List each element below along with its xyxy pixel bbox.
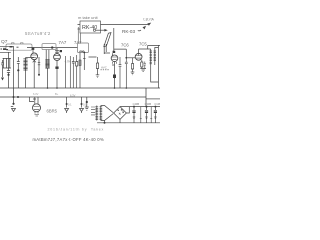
AGC wire xyxy=(38,57,40,75)
svg-text:C30B: C30B xyxy=(145,102,152,106)
dial cord arrowhead xyxy=(147,23,151,26)
ground cap far left xyxy=(1,60,4,77)
dial terminal circle xyxy=(93,29,95,31)
coil pack top terminals xyxy=(12,43,24,44)
T4 top wire xyxy=(138,49,140,53)
IFT2 to detector wire xyxy=(89,53,113,57)
tube T5 magic eye 6BR5 xyxy=(33,104,41,112)
tube T1 converter xyxy=(31,53,38,60)
RK-40 unit box xyxy=(80,21,101,33)
T4 grid wire xyxy=(126,57,135,59)
coupling capacitor C8 xyxy=(125,55,128,88)
ground G3 xyxy=(96,69,100,78)
wire RK-40 terminal drops xyxy=(78,27,80,43)
rail junction dots xyxy=(47,87,49,89)
variable cap mark xyxy=(33,59,36,63)
transformer bottom to rail xyxy=(104,121,106,123)
resistor R2 xyxy=(64,56,66,88)
antenna coil windings xyxy=(3,58,11,68)
power transformer xyxy=(97,106,101,121)
junction dot rail2 xyxy=(17,96,19,98)
filter capacitor E2 xyxy=(146,106,148,108)
svg-text:m take unit: m take unit xyxy=(78,15,98,20)
magic eye wires xyxy=(30,97,39,104)
IFT1 box xyxy=(42,44,56,50)
svg-text:5ttA7u9'4'2: 5ttA7u9'4'2 xyxy=(25,31,51,36)
ground G2b xyxy=(80,97,84,113)
filter capacitor E1 xyxy=(133,106,135,108)
tube T4 output xyxy=(135,53,142,60)
RK-40 left terminals xyxy=(78,25,81,29)
wire T1 cathode xyxy=(33,60,35,88)
wire T3 to coupling xyxy=(114,49,127,55)
oscillator coil L2 xyxy=(25,58,27,72)
svg-text:C10B: C10B xyxy=(154,102,160,106)
PSU bottom rail xyxy=(97,122,160,124)
svg-text:RK-03: RK-03 xyxy=(122,29,135,34)
transformer to rectifier wires xyxy=(101,106,113,121)
svg-text:B+: B+ xyxy=(55,92,59,96)
rectifier output wire xyxy=(126,107,129,113)
bridge rectifier diamond xyxy=(114,107,127,120)
svg-text:AVC: AVC xyxy=(101,66,108,70)
resistor R3 xyxy=(76,55,78,88)
wire top-left rail xyxy=(0,46,14,52)
RK-03 arrow xyxy=(138,29,141,32)
dial pointer arrow xyxy=(96,29,105,31)
volume pot legs xyxy=(104,44,110,54)
T1 grid cap xyxy=(32,47,35,50)
PSU B+ wire upper xyxy=(146,98,160,100)
main rail GND xyxy=(0,87,160,89)
filter capacitor E3 xyxy=(154,106,156,108)
IFT2 wires xyxy=(80,53,84,89)
svg-text:4.7K: 4.7K xyxy=(65,60,71,64)
IFT1 junction blob xyxy=(51,46,53,48)
wire osc coil top xyxy=(26,58,35,89)
rectifier bottom to rail xyxy=(119,119,121,122)
B+ feed line right xyxy=(139,45,160,49)
capacitor C7 xyxy=(119,57,122,88)
svg-text:7C6: 7C6 xyxy=(121,43,129,48)
capacitor C0 xyxy=(7,52,10,88)
svg-text:7A7: 7A7 xyxy=(59,40,67,45)
cap + ground G2c xyxy=(86,97,88,101)
wire mid xyxy=(69,56,71,88)
IFT1 wires down xyxy=(46,50,49,88)
svg-text:7C5: 7C5 xyxy=(139,42,147,47)
PSU top bus xyxy=(120,106,160,108)
T3 plate load wire xyxy=(112,62,115,79)
tuning capacitor parallelogram xyxy=(104,33,111,47)
svg-text:2016/Jan/11th by Takex: 2016/Jan/11th by Takex xyxy=(48,127,105,131)
cathode cap C9 xyxy=(144,62,146,69)
capacitor C5 xyxy=(72,57,75,88)
output transformer xyxy=(151,51,155,73)
T3 top wire xyxy=(113,28,115,53)
svg-text:6BR5: 6BR5 xyxy=(47,108,58,113)
tube T3 detector xyxy=(111,55,118,62)
T2 grid cap xyxy=(60,50,62,52)
antenna coil pack box xyxy=(6,44,32,50)
cathode resistor R6 xyxy=(141,60,143,69)
ground G2 xyxy=(65,97,69,113)
svg-text:6.3V: 6.3V xyxy=(70,93,76,97)
ground G1 left xyxy=(13,88,15,104)
T3 grid cap xyxy=(113,51,116,53)
OPT wires xyxy=(151,45,159,88)
second rail xyxy=(0,88,146,107)
AVC dashed line xyxy=(101,69,110,71)
tube T2 IF amp xyxy=(54,54,61,61)
svg-text:0.1: 0.1 xyxy=(68,103,72,107)
cathode bypass cap blob xyxy=(55,67,58,69)
IFT2 box xyxy=(78,43,89,53)
svg-text:RK-40: RK-40 xyxy=(82,25,97,31)
svg-text:mAtBm7J7,7A7x·t·OFF 4K-40 0%: mAtBm7J7,7A7x·t·OFF 4K-40 0% xyxy=(33,137,104,142)
coil pack inner marks xyxy=(1,47,19,50)
detector resistor R4 xyxy=(96,57,98,69)
capacitor C1 xyxy=(17,57,20,70)
IFT1 windings xyxy=(46,56,49,68)
IFT2 coil bumps xyxy=(80,51,85,52)
svg-text:6.3V: 6.3V xyxy=(33,92,39,96)
wire top rail segment to IFT1 xyxy=(27,47,78,49)
resistor R3b xyxy=(79,60,81,66)
T2 cathode wire xyxy=(56,60,58,88)
capacitor C1 blob xyxy=(17,69,19,71)
bleeder wires xyxy=(140,107,152,123)
ground G5 xyxy=(140,69,146,72)
transformer primary stubs xyxy=(91,107,95,115)
svg-text:C40B: C40B xyxy=(133,102,140,106)
wire left vertical xyxy=(13,46,15,88)
grid resistor R5 xyxy=(131,58,133,72)
wire dial cord line xyxy=(101,24,149,26)
svg-text:t.st.rtA: t.st.rtA xyxy=(144,18,155,22)
ground G4 xyxy=(131,72,135,75)
